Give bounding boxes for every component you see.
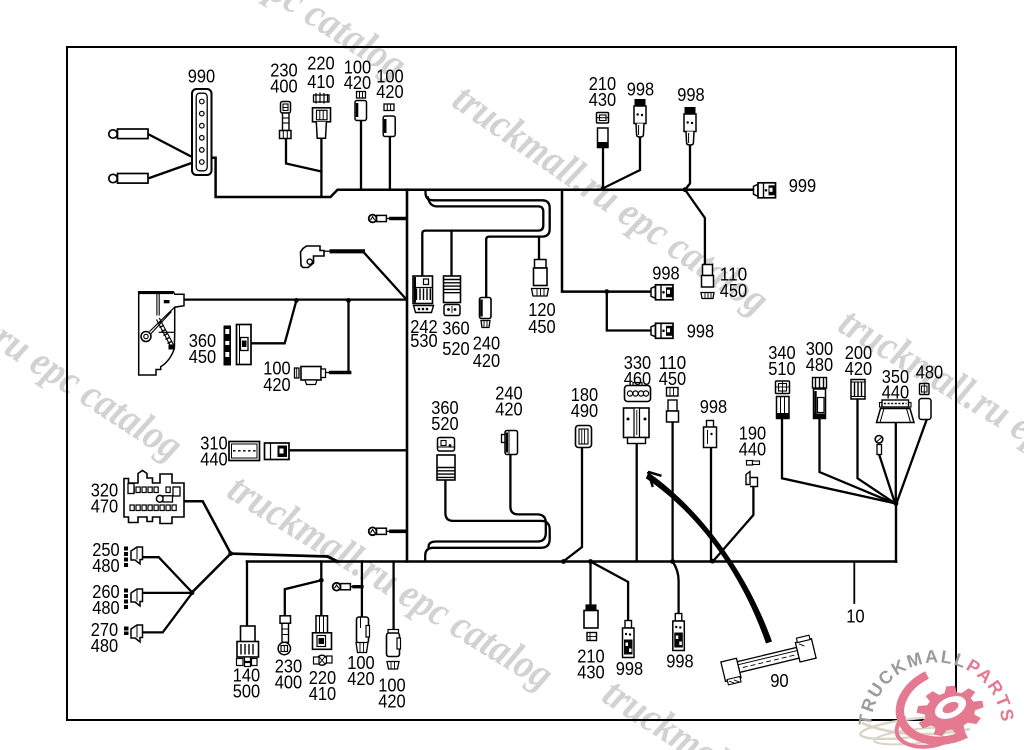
pin3 thick — [354, 585, 362, 588]
ring terminal 1 — [109, 129, 148, 139]
label 360 520 a — [442, 319, 469, 359]
wire 998a diagonal — [604, 137, 640, 189]
svg-text:480: 480 — [806, 355, 833, 375]
pin2 thick link — [391, 529, 406, 533]
connector 999 — [754, 183, 777, 198]
connector 310-440 — [229, 442, 289, 461]
wire 210-430b drop — [589, 562, 591, 605]
pin3 link — [350, 586, 354, 588]
wire junction — [670, 559, 675, 564]
svg-text:450: 450 — [528, 317, 555, 337]
label 250 480 — [92, 540, 119, 576]
connector 210-430 top — [597, 113, 609, 148]
label 220 410 bottom — [309, 668, 336, 704]
label 990 — [188, 67, 215, 87]
svg-text:998: 998 — [700, 397, 727, 417]
logo truckmall-parts — [855, 646, 1018, 747]
connector 250-480 — [124, 547, 143, 568]
label 140 500 — [233, 665, 260, 701]
wire Y2 to Y1 — [192, 554, 231, 593]
svg-text:998: 998 — [627, 79, 654, 99]
left vertical trunk — [406, 190, 409, 562]
label 330 460 — [624, 353, 651, 389]
wire 100-420b drop — [389, 136, 391, 189]
svg-text:220: 220 — [307, 53, 334, 73]
svg-text:999: 999 — [789, 176, 816, 196]
connector 100-420c — [295, 367, 326, 385]
connector 100-420e — [387, 630, 401, 670]
pin terminal 1 — [369, 215, 387, 223]
wire strip to top trunk — [211, 158, 752, 197]
pin2 link — [386, 530, 391, 532]
label 480 b — [916, 362, 943, 382]
svg-text:360: 360 — [442, 319, 469, 339]
wire 100-420c thick2 — [331, 371, 350, 375]
wire 220-410b drop — [320, 562, 322, 617]
svg-text:510: 510 — [768, 359, 795, 379]
svg-text:420: 420 — [495, 400, 522, 420]
label 320 470 — [91, 480, 118, 516]
svg-text:90: 90 — [770, 671, 789, 691]
connector 998d — [651, 323, 674, 338]
connector 220-410b — [313, 616, 333, 665]
wire 100-420c branch — [330, 300, 349, 372]
svg-text:410: 410 — [307, 72, 334, 92]
pin1 thick link — [391, 217, 406, 221]
bottom trunk right riser — [895, 504, 897, 562]
connector 360-520a — [444, 276, 461, 316]
connector 330-460 — [624, 383, 651, 444]
wire 110-450b drop — [671, 422, 673, 562]
connector 480b — [919, 384, 931, 420]
connector 140-500 — [237, 626, 259, 667]
wire 360-450 to trunk wire — [251, 300, 296, 343]
svg-text:450: 450 — [720, 281, 747, 301]
wire 270-480 — [141, 593, 192, 633]
right vertical trunk to 998c — [562, 190, 650, 292]
label 998g — [666, 651, 693, 671]
label 230 400 top — [270, 61, 297, 97]
label 270 480 — [91, 620, 118, 656]
connector 998g — [673, 614, 685, 651]
connector 220-410 top — [313, 93, 331, 139]
svg-text:998: 998 — [677, 85, 704, 105]
pin terminal 3 — [333, 583, 351, 591]
pin terminal 4 — [875, 436, 883, 455]
connector 260-480 — [124, 589, 143, 610]
connector 242-530 — [413, 276, 434, 313]
wire junction — [683, 187, 688, 192]
bracket clip — [301, 246, 325, 268]
wire 180-490 drop — [564, 447, 583, 561]
svg-text:420: 420 — [263, 375, 290, 395]
wire junction — [346, 298, 351, 303]
wire 350-440 — [895, 423, 897, 504]
wire 260-480 — [143, 592, 192, 594]
component 320-470 — [124, 471, 184, 524]
svg-text:490: 490 — [571, 401, 598, 421]
wire 100-420e drop — [392, 562, 394, 632]
svg-text:470: 470 — [91, 497, 118, 517]
svg-text:998: 998 — [616, 659, 643, 679]
wire 330-460 drop — [636, 442, 638, 562]
label 110 450 — [720, 264, 747, 301]
wire 480b — [896, 420, 926, 504]
harness loop1 inner — [422, 198, 543, 277]
wire 230-400b drop — [285, 580, 322, 616]
wire junction — [588, 559, 593, 564]
wire 210-430 drop — [602, 148, 604, 189]
wire 120-450 drop — [538, 237, 540, 260]
label 360 520 b — [431, 398, 458, 434]
label 999 — [789, 176, 816, 196]
label 350 440 — [882, 367, 909, 403]
label 100 420 bottom1 — [347, 653, 374, 689]
label 260 480 — [92, 582, 119, 618]
wire pin4 — [879, 455, 895, 503]
svg-text:10: 10 — [846, 606, 865, 626]
wire junction — [604, 289, 609, 294]
wire to 998d — [607, 292, 650, 331]
wire to 110-450 — [685, 190, 705, 265]
bracket diagonal to trunk — [363, 251, 406, 299]
svg-text:430: 430 — [589, 90, 616, 110]
wire 998g drop — [673, 562, 679, 617]
connector 180-490 — [576, 426, 592, 448]
connector 230-400b — [278, 616, 290, 655]
label 180 490 — [571, 385, 598, 421]
label 300 480 — [806, 339, 833, 375]
label 210 430 bottom — [577, 646, 604, 682]
label 240 420 b — [495, 383, 522, 419]
label 998f — [616, 659, 643, 679]
wire 190-440 diagonal — [714, 487, 754, 561]
label 110 450 b — [659, 353, 686, 389]
label 100 420 top1 — [344, 57, 371, 93]
relay plate — [139, 292, 184, 375]
label 120 450 — [528, 300, 555, 337]
label 360 450 left — [189, 331, 216, 367]
label 90 — [770, 671, 789, 691]
wire terminal2 to strip — [148, 163, 193, 179]
label 998a — [627, 79, 654, 99]
wire 230-400 drop — [286, 137, 321, 172]
label 100 420 mid — [263, 358, 290, 395]
harness loop2 wire B — [425, 480, 550, 562]
bracket link thin — [324, 250, 332, 252]
harness loop1 outer — [426, 190, 550, 298]
svg-text:480: 480 — [916, 362, 943, 382]
svg-text:998: 998 — [687, 321, 714, 341]
svg-text:430: 430 — [577, 663, 604, 683]
label 998d — [687, 321, 714, 341]
wire 340-510 — [782, 419, 895, 504]
svg-text:410: 410 — [309, 684, 336, 704]
connector 340-510 — [776, 381, 790, 419]
connector 300-480 — [813, 378, 827, 419]
wire 320-470 — [177, 501, 230, 553]
connector 360-450 — [224, 325, 252, 366]
svg-text:420: 420 — [473, 351, 500, 371]
connector 120-450 — [532, 260, 549, 297]
wire Y1 to bottom trunk — [231, 554, 338, 562]
connector 270-480 — [124, 625, 143, 642]
svg-text:520: 520 — [442, 339, 469, 359]
svg-text:400: 400 — [270, 76, 297, 96]
svg-text:530: 530 — [410, 331, 437, 351]
wire 250-480 — [143, 557, 192, 592]
svg-text:400: 400 — [275, 673, 302, 693]
svg-text:480: 480 — [92, 598, 119, 618]
wire 100-420a drop — [360, 121, 362, 190]
relay plate wire — [184, 298, 407, 300]
wire 998e drop — [710, 448, 712, 562]
svg-text:440: 440 — [882, 383, 909, 403]
label 242 530 — [410, 317, 437, 351]
label 190 440 — [739, 423, 766, 459]
wire 360-520a drop — [450, 231, 452, 276]
label 200 420 — [845, 343, 872, 379]
label 340 510 — [768, 343, 795, 379]
label 998e — [700, 397, 727, 417]
connector 350-440 — [877, 400, 915, 423]
wire 220-410 drop — [320, 139, 322, 197]
wire junction — [190, 590, 195, 595]
wire junction — [561, 559, 566, 564]
label 220 410 top — [307, 53, 334, 92]
border frame — [67, 47, 956, 720]
connector strip 990 — [192, 89, 212, 175]
wire junction — [294, 298, 299, 303]
connector 100-420 top2 — [383, 104, 395, 137]
svg-text:998: 998 — [652, 263, 679, 283]
connector 998e — [704, 421, 717, 448]
ring terminal 2 — [109, 174, 148, 184]
label 100 420 top2 — [376, 66, 403, 102]
label 10 — [846, 606, 865, 626]
connector 240-420b — [502, 431, 518, 455]
wire junction — [894, 501, 899, 506]
pin terminal 2 — [369, 527, 387, 535]
wire 200-420 — [858, 399, 895, 503]
connector 360-520b — [437, 438, 455, 481]
connector 998f — [623, 621, 635, 658]
wire junction — [601, 186, 606, 191]
bottom trunk — [247, 560, 896, 563]
svg-text:440: 440 — [739, 440, 766, 460]
wire 300-480 — [820, 419, 895, 504]
label 210 430 top — [589, 74, 616, 110]
wire terminal1 to strip — [148, 134, 193, 158]
stub label 10 — [853, 562, 855, 604]
svg-text:420: 420 — [344, 73, 371, 93]
label 100 420 bottom2 — [378, 675, 405, 711]
connector 190-440 — [746, 461, 760, 487]
connector 110-450b — [667, 388, 679, 423]
pin1 link — [386, 218, 391, 220]
svg-text:420: 420 — [845, 359, 872, 379]
wire junction — [228, 551, 233, 556]
pointer arrow — [646, 472, 772, 644]
svg-text:450: 450 — [189, 347, 216, 367]
svg-text:520: 520 — [431, 414, 458, 434]
connector 210-430b — [584, 604, 598, 640]
connector 100-420d — [356, 617, 370, 653]
wire 100-420d drop — [361, 562, 363, 618]
svg-text:480: 480 — [91, 636, 118, 656]
wire 310-440 to trunk — [289, 449, 407, 451]
wire 998f diagonal — [591, 562, 629, 621]
svg-text:998: 998 — [666, 651, 693, 671]
wire 100-420c thick — [325, 372, 330, 374]
label 230 400 bottom — [275, 656, 302, 692]
svg-text:450: 450 — [659, 369, 686, 389]
label 998c — [652, 263, 679, 283]
svg-text:420: 420 — [347, 669, 374, 689]
svg-text:420: 420 — [376, 82, 403, 102]
label 240 420 a — [473, 334, 500, 372]
rail 90 — [720, 635, 818, 686]
harness loop2 wire A — [429, 454, 546, 548]
connector 230-400 top — [280, 102, 292, 139]
bracket link thick — [332, 249, 363, 253]
svg-text:420: 420 — [378, 692, 405, 712]
svg-text:460: 460 — [624, 369, 651, 389]
svg-text:440: 440 — [200, 450, 227, 470]
label 998b — [677, 85, 704, 105]
connector 110-450a — [701, 265, 714, 299]
connector 100-420 top1 — [355, 92, 367, 121]
svg-text:480: 480 — [92, 556, 119, 576]
connector 200-420c — [851, 380, 865, 400]
label 310 440 — [200, 433, 227, 469]
wire 998b drop — [685, 141, 690, 190]
svg-text:990: 990 — [188, 67, 215, 87]
connector 998b — [684, 107, 696, 145]
connector 240-420a — [480, 298, 492, 328]
svg-text:500: 500 — [233, 682, 260, 702]
connector 998a — [634, 99, 646, 137]
wire junction — [319, 578, 324, 583]
connector 998c — [651, 285, 674, 300]
wire junction — [710, 559, 715, 564]
bottom trunk left drop 140-500 — [246, 562, 248, 627]
